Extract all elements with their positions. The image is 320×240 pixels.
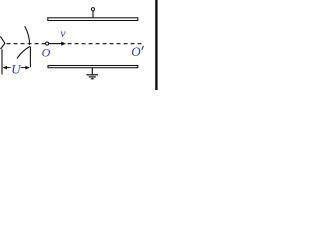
svg-text:v: v — [60, 26, 66, 40]
U dimension right tick — [29, 47, 31, 68]
cathode filament chevron — [0, 36, 5, 49]
velocity arrow v — [49, 43, 62, 45]
svg-text:O: O — [131, 44, 141, 59]
label O prime tick — [142, 46, 144, 50]
U dimension right arrow — [21, 67, 26, 69]
U dimension left tick — [1, 49, 3, 74]
anode lower arc — [17, 46, 30, 58]
beam axis dashed line right segment — [68, 43, 143, 45]
beam axis dashed line left segment — [7, 43, 46, 45]
top plate — [48, 18, 138, 21]
svg-text:O: O — [42, 45, 51, 59]
bottom plate — [48, 66, 138, 68]
terminal stem wire — [92, 10, 94, 17]
ground symbol — [86, 74, 98, 76]
terminal circle — [91, 8, 94, 11]
ground stem wire — [91, 68, 93, 74]
svg-text:U: U — [11, 62, 22, 77]
node O circle — [46, 42, 49, 45]
screen (right vertical line) — [155, 0, 157, 90]
U dimension left arrow — [6, 67, 11, 69]
anode upper arc — [25, 26, 30, 45]
